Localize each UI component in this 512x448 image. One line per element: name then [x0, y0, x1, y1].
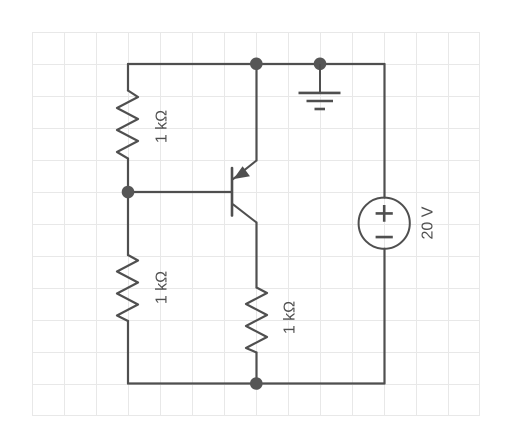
- wire emitter from top node: [255, 64, 257, 161]
- junction node ground: [314, 58, 327, 71]
- wire top rail: [128, 63, 385, 65]
- wire left branch upper: [127, 64, 129, 91]
- wire R1 to base node: [127, 159, 129, 192]
- wire right branch lower: [383, 249, 385, 384]
- wire collector to R3: [255, 223, 257, 288]
- svg-text:1 kΩ: 1 kΩ: [154, 271, 171, 304]
- transistor Q1: [232, 161, 257, 223]
- junction node bottom: [250, 377, 263, 390]
- wire bottom rail: [128, 382, 385, 384]
- ground: [299, 64, 341, 109]
- wire base: [128, 191, 231, 193]
- resistor R2: [117, 255, 138, 321]
- wire right branch upper: [383, 64, 385, 198]
- wire left branch lower: [127, 321, 129, 384]
- wire R3 to bottom rail: [255, 353, 257, 384]
- junction node top: [250, 58, 263, 71]
- wire base node to R2: [127, 192, 129, 255]
- svg-text:1 kΩ: 1 kΩ: [282, 301, 299, 334]
- voltage source V1: [359, 198, 410, 249]
- svg-text:20 V: 20 V: [420, 206, 437, 239]
- svg-text:1 kΩ: 1 kΩ: [154, 110, 171, 143]
- resistor R1: [117, 91, 138, 159]
- junction node base: [122, 186, 135, 199]
- resistor R3: [246, 288, 267, 353]
